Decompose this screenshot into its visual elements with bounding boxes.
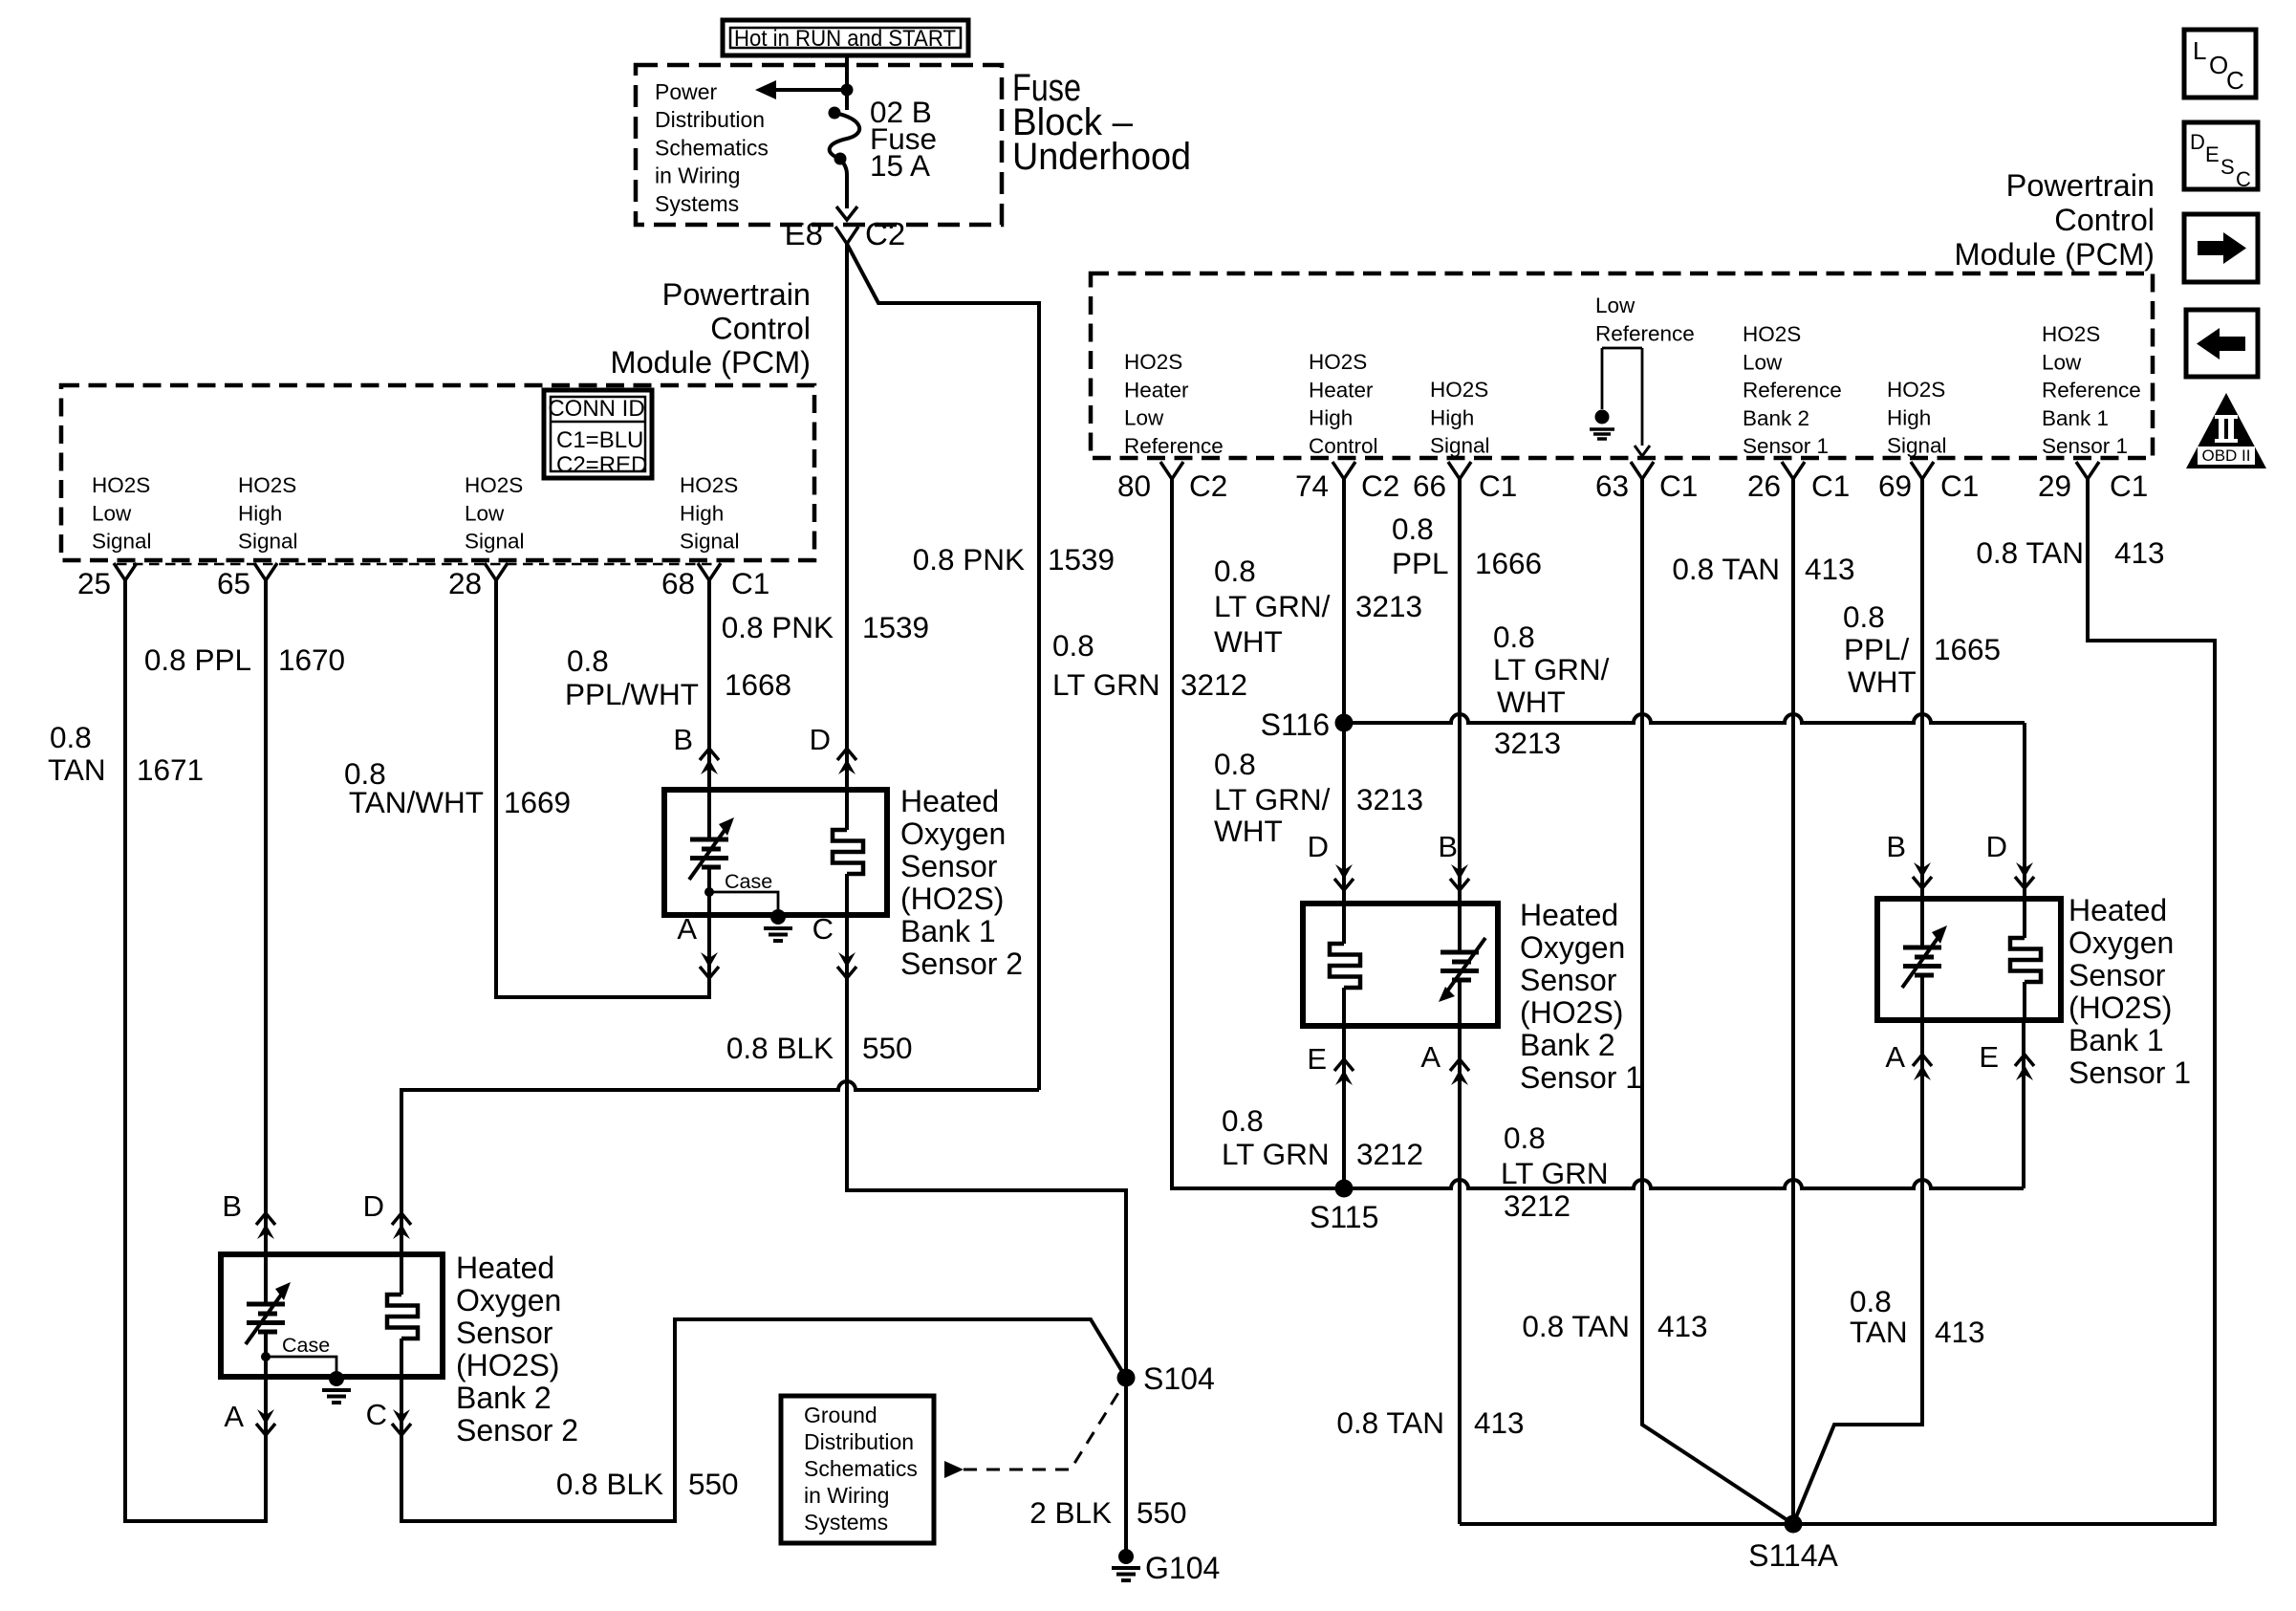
label: Heated Oxygen Sensor (HO2S) Bank 1 Sensor 1 [2069, 893, 2191, 1090]
label: 0.8 PPL 1666 [1392, 512, 1542, 580]
svg-text:PPL: PPL [1392, 546, 1449, 580]
svg-text:3212: 3212 [1356, 1137, 1423, 1171]
svg-text:A: A [1420, 1040, 1440, 1074]
svg-text:Reference: Reference [1595, 321, 1695, 345]
svg-text:Bank 1: Bank 1 [2042, 406, 2109, 430]
svg-text:Ground: Ground [804, 1403, 877, 1427]
svg-text:C2=RED: C2=RED [556, 452, 647, 478]
wire: 0.8 PPL 1670 (pin 65 to pin B HO2S B2S2) [264, 580, 268, 1254]
wire: LT GRN 3212 (pin E HO2S B2S1 to S115) [1342, 1026, 1346, 1188]
label: 0.8 PPL/WHT 1668 [565, 643, 791, 711]
svg-text:HO2S: HO2S [1309, 350, 1367, 374]
svg-text:HO2S: HO2S [92, 473, 150, 497]
svg-text:WHT: WHT [1214, 814, 1283, 848]
svg-text:550: 550 [688, 1467, 739, 1501]
svg-text:0.8 TAN: 0.8 TAN [1522, 1309, 1630, 1343]
pin B (HO2S B2S1) [1438, 830, 1469, 890]
svg-text:Sensor 2: Sensor 2 [900, 947, 1023, 981]
svg-text:Signal: Signal [1430, 434, 1490, 458]
svg-text:(HO2S): (HO2S) [900, 882, 1004, 916]
svg-text:A: A [677, 912, 697, 946]
svg-text:Oxygen: Oxygen [2069, 925, 2174, 960]
arrow: reference to Power Distribution Schematics [755, 80, 847, 99]
svg-text:C1=BLU: C1=BLU [556, 427, 643, 453]
svg-text:Sensor: Sensor [2069, 958, 2166, 992]
svg-text:69: 69 [1878, 468, 1912, 503]
svg-text:S116: S116 [1261, 708, 1330, 742]
svg-text:A: A [1885, 1040, 1905, 1074]
pin C (HO2S B1S2) [812, 912, 856, 978]
svg-text:A: A [224, 1400, 244, 1433]
svg-text:S114A: S114A [1748, 1538, 1838, 1573]
wire: 0.8 TAN 413 (pin A HO2S B2S1 to S114A run) [1458, 1026, 1462, 1524]
svg-text:B: B [1438, 830, 1458, 863]
label: 0.8 PPL/WHT 1665 [1843, 599, 2001, 699]
pin B (HO2S B1S1) [1886, 830, 1932, 888]
svg-text:0.8 PNK: 0.8 PNK [913, 542, 1025, 577]
svg-text:B: B [673, 723, 693, 756]
svg-text:0.8: 0.8 [1843, 599, 1885, 634]
label: 0.8 PPL 1670 [144, 642, 345, 677]
svg-text:Module (PCM): Module (PCM) [1955, 237, 2155, 272]
svg-text:Case: Case [282, 1334, 330, 1357]
svg-text:in Wiring: in Wiring [655, 163, 740, 188]
svg-text:1665: 1665 [1934, 632, 2001, 666]
svg-text:0.8: 0.8 [1052, 628, 1094, 663]
svg-text:Heated: Heated [2069, 893, 2167, 927]
pin 65: HO2S High Signal [217, 473, 298, 600]
svg-text:C1: C1 [1940, 468, 1979, 503]
svg-text:HO2S: HO2S [1124, 350, 1182, 374]
svg-text:15 A: 15 A [870, 148, 930, 183]
heater element HO2S B2S2 [387, 1254, 418, 1377]
svg-text:Low: Low [1124, 406, 1164, 430]
wire: 0.8 TAN 1671 (pin 25 to pin A HO2S B2S2) [125, 580, 266, 1521]
svg-text:0.8: 0.8 [1214, 747, 1256, 781]
svg-text:LT GRN/: LT GRN/ [1214, 589, 1331, 623]
svg-text:1669: 1669 [504, 785, 571, 819]
wire: 0.8 TAN 413 (pin 29 to S114A bottom run) [1460, 479, 2215, 1524]
svg-text:HO2S: HO2S [238, 473, 296, 497]
svg-text:66: 66 [1413, 468, 1446, 503]
svg-text:0.8: 0.8 [1493, 620, 1535, 654]
svg-text:C1: C1 [1811, 468, 1850, 503]
svg-text:Case: Case [725, 870, 772, 893]
svg-text:C: C [2226, 66, 2244, 95]
label: 2 BLK 550 [1029, 1495, 1186, 1530]
label: 0.8 BLK 550 (lower) [556, 1467, 739, 1501]
wire: 0.8 TAN 413 (pin 26 to S114A) [1791, 479, 1795, 1515]
svg-text:S104: S104 [1143, 1361, 1215, 1396]
svg-text:G104: G104 [1145, 1551, 1220, 1585]
wire: LT GRN 3212 (S115 to pin E HO2S B1S1) [1344, 1020, 2024, 1188]
svg-text:HO2S: HO2S [1743, 322, 1801, 346]
svg-text:HO2S: HO2S [2042, 322, 2100, 346]
wire: 0.8 PPL/WHT 1665 (pin 69 to pin B HO2S B1S1) [1920, 479, 1924, 899]
svg-text:Heated: Heated [456, 1251, 554, 1285]
svg-text:S: S [2220, 155, 2235, 179]
pin 63: Low Reference [1595, 462, 1698, 503]
svg-text:C2: C2 [865, 216, 905, 251]
svg-text:(HO2S): (HO2S) [2069, 991, 2172, 1025]
HO2S Bank 1 Sensor 2 box [664, 790, 887, 915]
sensor element (variable battery) HO2S B1S2 [689, 790, 734, 915]
HO2S Bank 1 Sensor 1 box [1877, 899, 2061, 1020]
icon: LOC box [2184, 30, 2256, 98]
Ground Distribution Schematics in Wiring Systems box [781, 1396, 934, 1543]
svg-text:0.8: 0.8 [1392, 512, 1434, 546]
label: 0.8 TAN 413 (pin 26) [1672, 552, 1854, 586]
svg-text:PPL/WHT: PPL/WHT [565, 677, 699, 711]
label: 0.8 TAN 413 (pin A B2S1) [1336, 1405, 1524, 1440]
svg-text:413: 413 [1474, 1405, 1525, 1440]
svg-text:3213: 3213 [1356, 782, 1423, 816]
svg-text:in Wiring: in Wiring [804, 1483, 889, 1508]
svg-text:0.8: 0.8 [1214, 554, 1256, 588]
svg-text:E8: E8 [785, 216, 823, 251]
label: Heated Oxygen Sensor (HO2S) Bank 2 Sensor 1 [1520, 898, 1642, 1095]
pin 26: HO2S Low Reference Bank 2 Sensor 1 [1743, 322, 1850, 503]
label: 0.8 LT GRN 3212 (right run) [1501, 1121, 1609, 1223]
svg-text:0.8: 0.8 [50, 720, 92, 754]
svg-text:E: E [2205, 142, 2220, 166]
svg-text:65: 65 [217, 566, 250, 600]
sensor element (variable battery) HO2S B1S1 [1902, 899, 1947, 1020]
svg-text:Control: Control [710, 312, 811, 346]
pin 69: HO2S High Signal [1878, 378, 1979, 503]
svg-text:Sensor: Sensor [900, 849, 998, 883]
svg-text:WHT: WHT [1848, 664, 1917, 699]
svg-text:Reference: Reference [2042, 379, 2141, 403]
PCM box (right) [1091, 273, 2153, 458]
svg-text:550: 550 [1137, 1495, 1187, 1530]
svg-text:Sensor 2: Sensor 2 [456, 1413, 578, 1448]
svg-text:Sensor 1: Sensor 1 [2069, 1056, 2191, 1090]
junction S104 [1117, 1361, 1215, 1396]
svg-text:HO2S: HO2S [1430, 378, 1488, 402]
pin A (HO2S B1S2) [677, 912, 719, 978]
svg-text:Sensor 1: Sensor 1 [1520, 1060, 1642, 1095]
svg-text:LT GRN/: LT GRN/ [1214, 782, 1331, 816]
wire: 2 BLK 550 (S104 to G104) [1124, 1378, 1128, 1550]
svg-text:Signal: Signal [92, 530, 152, 554]
internal: Low Reference net with ground and arrow to pin 63 [1590, 294, 1695, 456]
svg-text:Sensor 1: Sensor 1 [1743, 434, 1829, 458]
label: Powertrain Control Module (PCM) (right) [1955, 168, 2155, 272]
pin A (HO2S B2S2) [224, 1400, 275, 1435]
pin B (HO2S B1S2) [673, 723, 719, 774]
svg-text:Signal: Signal [465, 530, 525, 554]
fuse: 02 B Fuse 15 A [829, 107, 860, 221]
label: 0.8 LT GRN/WHT 3213 (above S116) [1214, 554, 1422, 659]
svg-text:Bank 1: Bank 1 [900, 914, 996, 948]
label: 0.8 LT GRN/WHT 3213 (right run) [1493, 620, 1610, 760]
svg-text:Bank 2: Bank 2 [1743, 406, 1809, 430]
svg-text:Heated: Heated [1520, 898, 1618, 932]
pin 80: HO2S Heater Low Reference [1117, 350, 1227, 503]
svg-text:Distribution: Distribution [655, 107, 765, 132]
svg-text:Systems: Systems [655, 191, 739, 216]
junction S116 [1261, 708, 1354, 742]
svg-text:0.8 TAN: 0.8 TAN [1336, 1405, 1444, 1440]
svg-text:Low: Low [2042, 350, 2082, 374]
svg-text:D: D [1308, 830, 1329, 863]
junction S115 [1310, 1180, 1378, 1235]
label: 0.8 PNK 1539 (branch) [913, 542, 1115, 577]
pin C (HO2S B2S2) [366, 1398, 411, 1435]
svg-text:1666: 1666 [1475, 546, 1542, 580]
wire: 0.8 BLK 550 (pin C HO2S B1S2 to S104) [847, 915, 1126, 1369]
svg-text:0.8 TAN: 0.8 TAN [1976, 535, 2084, 570]
svg-text:3213: 3213 [1355, 589, 1422, 623]
svg-text:Systems: Systems [804, 1510, 888, 1535]
HO2S Bank 2 Sensor 2 box [221, 1254, 443, 1377]
svg-text:Low: Low [92, 501, 132, 525]
svg-text:Low: Low [465, 501, 505, 525]
label: 0.8 LT GRN 3212 (pin 80) [1052, 628, 1247, 702]
wire: 0.8 LT GRN 3212 (pin 80 to S115) [1172, 479, 1344, 1188]
label: 0.8 PNK 1539 (upper) [722, 610, 929, 644]
label: 0.8 LT GRN 3212 (at S115) [1222, 1103, 1423, 1171]
power label box: Hot in RUN and START [723, 20, 968, 55]
label: 0.8 TAN/WHT 1669 [344, 756, 571, 819]
svg-text:Reference: Reference [1743, 379, 1842, 403]
svg-text:C2: C2 [1361, 468, 1399, 503]
svg-text:CONN ID: CONN ID [548, 396, 644, 422]
connector E8 C2 at fuse block output [785, 216, 906, 255]
svg-text:WHT: WHT [1497, 685, 1566, 719]
label: 02 B Fuse 15 A [870, 95, 937, 183]
case ground HO2S B1S2 [704, 870, 792, 941]
icon: right arrow box [2184, 214, 2258, 282]
svg-text:0.8 BLK: 0.8 BLK [556, 1467, 663, 1501]
svg-text:D: D [2190, 130, 2205, 154]
svg-text:Powertrain: Powertrain [2006, 168, 2155, 203]
svg-text:LT GRN/: LT GRN/ [1493, 652, 1610, 686]
svg-text:WHT: WHT [1214, 624, 1283, 659]
svg-text:68: 68 [661, 566, 695, 600]
svg-text:Schematics: Schematics [804, 1456, 918, 1481]
svg-text:(HO2S): (HO2S) [1520, 995, 1623, 1030]
label: 0.8 TAN 413 (pin 29) [1976, 535, 2164, 570]
svg-text:Signal: Signal [680, 530, 740, 554]
svg-text:0.8: 0.8 [1222, 1103, 1264, 1138]
svg-text:High: High [1309, 406, 1353, 430]
wire: 0.8 TAN 413 (pin A HO2S B1S1 to S114A) [1793, 1020, 1922, 1524]
svg-text:D: D [810, 723, 831, 756]
svg-text:Sensor 1: Sensor 1 [2042, 434, 2128, 458]
svg-text:63: 63 [1595, 468, 1629, 503]
pin D (HO2S B2S2) [363, 1189, 411, 1239]
svg-text:Sensor: Sensor [456, 1316, 553, 1350]
pin E (HO2S B1S1) [1979, 1040, 2034, 1080]
svg-text:C: C [2236, 167, 2251, 191]
svg-text:S115: S115 [1310, 1200, 1378, 1234]
svg-text:0.8 TAN: 0.8 TAN [1672, 552, 1780, 586]
label: 0.8 TAN 413 (pin A B1S1) [1850, 1284, 1985, 1349]
svg-text:OBD II: OBD II [2201, 446, 2250, 465]
svg-text:LT GRN: LT GRN [1052, 667, 1160, 702]
svg-text:3212: 3212 [1180, 667, 1247, 702]
svg-text:HO2S: HO2S [1887, 378, 1945, 402]
svg-text:Powertrain: Powertrain [662, 277, 811, 312]
svg-text:C1: C1 [1659, 468, 1698, 503]
svg-text:High: High [1887, 405, 1931, 429]
svg-text:C2: C2 [1189, 468, 1227, 503]
svg-text:High: High [238, 501, 282, 525]
wire: 0.8 PPL/WHT 1668 (pin 68 to pin B HO2S B1S2) [707, 580, 711, 790]
svg-text:Signal: Signal [1887, 434, 1947, 458]
svg-text:29: 29 [2038, 468, 2071, 503]
svg-text:(HO2S): (HO2S) [456, 1348, 559, 1382]
svg-text:TAN: TAN [48, 752, 106, 787]
label: 0.8 TAN 1671 [48, 720, 204, 787]
svg-text:3213: 3213 [1494, 726, 1561, 760]
ground G104 [1112, 1549, 1220, 1585]
svg-text:Reference: Reference [1124, 434, 1224, 458]
svg-text:550: 550 [862, 1031, 913, 1065]
heater element HO2S B1S2 [833, 790, 863, 915]
svg-text:Heater: Heater [1309, 378, 1374, 402]
svg-text:1539: 1539 [1048, 542, 1115, 577]
pin B (HO2S B2S2) [222, 1189, 275, 1239]
label: Heated Oxygen Sensor (HO2S) Bank 1 Sensor 2 [900, 784, 1023, 981]
svg-text:26: 26 [1747, 468, 1781, 503]
pin D (HO2S B2S1) [1308, 830, 1354, 890]
svg-text:Bank 1: Bank 1 [2069, 1023, 2164, 1057]
svg-text:0.8: 0.8 [1504, 1121, 1546, 1155]
svg-text:Low: Low [1743, 350, 1783, 374]
svg-text:3212: 3212 [1504, 1188, 1570, 1223]
svg-text:Oxygen: Oxygen [456, 1283, 561, 1317]
heater element HO2S B2S1 [1330, 903, 1360, 1026]
sensor element (variable battery) HO2S B2S2 [246, 1254, 291, 1377]
PCM box (left) [61, 385, 814, 564]
svg-text:Signal: Signal [238, 530, 298, 554]
svg-text:High: High [680, 501, 724, 525]
svg-text:B: B [222, 1189, 242, 1223]
svg-text:413: 413 [1935, 1315, 1985, 1349]
wire: 0.8 LT GRN/WHT 3213 (pin 74 to S116 to pin D HO2S B2S1) [1342, 479, 1346, 903]
wire: 0.8 BLK 550 (pin C HO2S B2S2 to S104) [401, 1319, 1126, 1521]
pin A (HO2S B2S1) [1420, 1040, 1469, 1085]
svg-text:Underhood: Underhood [1012, 136, 1191, 178]
pin A (HO2S B1S1) [1885, 1040, 1932, 1080]
icon: OBD II triangle [2186, 393, 2266, 468]
pin D (HO2S B1S2) [810, 723, 856, 774]
svg-text:Distribution: Distribution [804, 1429, 914, 1454]
svg-text:Heated: Heated [900, 784, 999, 818]
junction S114A [1748, 1515, 1838, 1574]
svg-text:C1: C1 [2110, 468, 2148, 503]
label: Fuse Block - Underhood [1012, 67, 1191, 178]
wire: LT GRN/WHT 3213 (S116 to pin D HO2S B1S1) [1344, 714, 2025, 899]
pin E (HO2S B2S1) [1307, 1042, 1354, 1085]
svg-text:High: High [1430, 405, 1474, 429]
svg-text:0.8 PPL: 0.8 PPL [144, 642, 251, 677]
svg-text:28: 28 [448, 566, 482, 600]
heater element HO2S B1S1 [2010, 899, 2041, 1020]
svg-text:C: C [812, 912, 834, 946]
svg-text:Hot in RUN and START: Hot in RUN and START [734, 26, 956, 52]
svg-text:E: E [1979, 1040, 1999, 1074]
dashed reference: S104 to Ground Distribution Schematics [944, 1388, 1121, 1478]
label: Heated Oxygen Sensor (HO2S) Bank 2 Sensor 2 [456, 1251, 578, 1448]
pin 28: HO2S Low Signal [448, 473, 525, 600]
pin 74: HO2S Heater High Control [1295, 350, 1399, 503]
label: 0.8 TAN 413 (pin 63) [1522, 1309, 1707, 1343]
wire: 0.8 PNK 1539 (E8 to pin D HO2S B1S2) [845, 244, 849, 790]
svg-text:25: 25 [77, 566, 111, 600]
svg-text:2 BLK: 2 BLK [1029, 1495, 1112, 1530]
svg-text:Oxygen: Oxygen [900, 816, 1006, 851]
fuse block box - Underhood [636, 65, 1002, 225]
label: 0.8 BLK 550 (upper) [726, 1031, 913, 1065]
icon: left arrow box [2186, 310, 2258, 377]
wire: 0.8 TAN/WHT 1669 (pin 28 to pin A HO2S B1S2) [496, 580, 709, 997]
label: 0.8 LT GRN/WHT 3213 (below S116) [1214, 747, 1423, 848]
svg-text:TAN: TAN [1850, 1315, 1908, 1349]
svg-text:Power: Power [655, 79, 718, 104]
pin 68: HO2S High Signal [661, 473, 769, 600]
svg-text:Control: Control [2054, 203, 2155, 237]
label: Powertrain Control Module (PCM) (left) [611, 277, 812, 380]
svg-text:Schematics: Schematics [655, 135, 769, 160]
svg-text:74: 74 [1295, 468, 1329, 503]
svg-text:B: B [1886, 830, 1906, 863]
svg-text:C1: C1 [731, 566, 769, 600]
svg-text:PPL/: PPL/ [1844, 632, 1910, 666]
svg-text:D: D [1986, 830, 2007, 863]
svg-text:413: 413 [2114, 535, 2165, 570]
svg-text:Control: Control [1309, 434, 1378, 458]
svg-text:Oxygen: Oxygen [1520, 930, 1625, 965]
svg-text:LT GRN: LT GRN [1222, 1137, 1330, 1171]
svg-text:Sensor: Sensor [1520, 963, 1617, 997]
svg-text:HO2S: HO2S [680, 473, 738, 497]
svg-text:0.8: 0.8 [1850, 1284, 1892, 1318]
wire: 0.8 TAN 413 (pin 63 to S114A) [1642, 479, 1793, 1524]
wire: 0.8 PPL 1666 (pin 66 to pin B HO2S B2S1) [1458, 479, 1462, 903]
svg-text:1668: 1668 [725, 667, 791, 702]
svg-text:E: E [1307, 1042, 1327, 1076]
wire: battery feed from Hot in RUN into fuse block [841, 55, 854, 110]
svg-text:0.8: 0.8 [567, 643, 609, 678]
svg-text:C1: C1 [1479, 468, 1517, 503]
svg-text:TAN/WHT: TAN/WHT [349, 785, 484, 819]
svg-text:413: 413 [1805, 552, 1855, 586]
svg-text:Low: Low [1595, 294, 1635, 317]
svg-text:0.8 BLK: 0.8 BLK [726, 1031, 834, 1065]
svg-text:1670: 1670 [278, 642, 345, 677]
svg-text:D: D [363, 1189, 384, 1223]
note: Power Distribution Schematics in Wiring Systems [655, 79, 769, 216]
svg-text:1539: 1539 [862, 610, 929, 644]
svg-text:L: L [2193, 36, 2206, 65]
svg-text:1671: 1671 [137, 752, 204, 787]
pin 66: HO2S High Signal [1413, 378, 1517, 503]
svg-text:Heater: Heater [1124, 378, 1189, 402]
svg-text:413: 413 [1657, 1309, 1708, 1343]
pin 29: HO2S Low Reference Bank 1 Sensor 1 [2038, 322, 2148, 503]
pin D (HO2S B1S1) [1986, 830, 2034, 888]
svg-text:Bank 2: Bank 2 [456, 1381, 552, 1415]
HO2S Bank 2 Sensor 1 box [1303, 903, 1498, 1026]
svg-text:HO2S: HO2S [465, 473, 523, 497]
svg-text:80: 80 [1117, 468, 1151, 503]
sensor element (variable battery) HO2S B2S1 [1439, 903, 1485, 1026]
svg-text:C: C [366, 1398, 387, 1431]
